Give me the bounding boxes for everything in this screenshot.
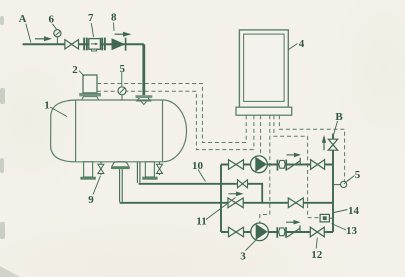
up flow arrow beside valve B: [322, 135, 326, 150]
svg-text:8: 8: [111, 12, 117, 24]
svg-text:3: 3: [240, 251, 246, 263]
wire: panel lead 6 to riser gauge: [279, 115, 344, 181]
flexible joint (top line): [277, 160, 288, 171]
wire: feed pipe drop to tank nozzle: [142, 44, 145, 95]
wire: panel lead 5 to pressure switch 13: [274, 115, 320, 217]
valve 11 on bypass: [228, 198, 243, 208]
valve B on riser (vertical): [328, 139, 337, 150]
wire: bypass line horizontal to riser: [120, 202, 333, 204]
gauge 5 on riser: [333, 180, 349, 188]
label 9: [88, 176, 100, 206]
label 6: [48, 14, 56, 30]
drain valve 9 (left): [98, 162, 104, 175]
label B: [332, 111, 343, 139]
svg-text:7: 7: [88, 12, 94, 24]
wire: suction manifold vertical: [220, 165, 222, 233]
flexible connector diagonal (bottom line): [287, 225, 300, 237]
flow arrow above top line: [287, 153, 302, 158]
flow arrow on feed pipe: [35, 36, 52, 41]
svg-text:11: 11: [196, 216, 206, 228]
wire: jog from pipe 10 down to bypass: [261, 183, 263, 203]
wire: pipe 10 drop from tank bottom (double line): [137, 162, 140, 183]
label 14: [334, 205, 360, 217]
label 3: [240, 240, 256, 263]
drain valve (right): [157, 162, 163, 175]
valve on feed pipe: [65, 40, 79, 49]
flow arrow above check valve 8: [115, 32, 132, 37]
label 8: [111, 12, 117, 31]
pressure switch 13 on riser: [320, 214, 332, 222]
label 5 (riser gauge): [348, 169, 361, 181]
wire: panel lead 3 to top pump: [260, 115, 262, 155]
tank leg right: [142, 162, 157, 180]
label 11: [196, 198, 235, 228]
svg-text:5: 5: [120, 63, 126, 75]
svg-text:2: 2: [72, 64, 78, 76]
valve at top pump suction: [229, 160, 244, 170]
pump 3 (bottom): [251, 223, 269, 241]
tank leg left: [80, 162, 95, 180]
control wiring (dashed): [97, 84, 345, 224]
fill nozzle on tank (under feed drop): [136, 95, 153, 104]
flexible connector diagonal (top line): [287, 158, 300, 170]
valve at bottom pump suction: [229, 227, 244, 237]
svg-text:9: 9: [88, 194, 94, 206]
label 4: [289, 38, 305, 50]
svg-text:4: 4: [299, 38, 305, 50]
tank 1 (horizontal pressure vessel): [51, 100, 187, 162]
svg-text:12: 12: [311, 249, 323, 261]
svg-text:A: A: [19, 14, 27, 25]
corner smudge: [0, 266, 20, 277]
valve on pipe 10: [238, 180, 248, 188]
svg-text:13: 13: [346, 225, 358, 237]
wire: suction drop pipe from center nozzle (double line): [120, 169, 123, 202]
wire: level device line lower to panel: [97, 91, 254, 149]
wire: panel lead 4 to bottom pump: [260, 115, 270, 223]
wire: discharge riser: [332, 134, 334, 232]
wire: level device line upper to panel: [97, 84, 246, 143]
svg-text:10: 10: [192, 160, 204, 172]
svg-text:1: 1: [44, 100, 50, 112]
wire: top pump line: [221, 164, 333, 166]
label 10: [192, 160, 206, 182]
flexible joint (bottom line): [276, 227, 287, 238]
control panel 4: [236, 30, 292, 115]
pump (top): [251, 156, 268, 173]
label 1: [44, 100, 67, 117]
valve 12 at bottom pump discharge: [310, 227, 324, 237]
meter 7 (water meter with flanges): [83, 38, 106, 51]
svg-text:14: 14: [348, 205, 360, 217]
nozzle with device 2 on tank top: [79, 75, 101, 100]
flow arrow above valve 11: [229, 192, 244, 197]
label 12: [311, 238, 323, 261]
label A (supply inlet): [19, 14, 31, 43]
center bottom nozzle of tank: [111, 162, 130, 169]
wire: pipe 10 horizontal: [139, 183, 263, 185]
wire: panel lead 2: [253, 115, 255, 149]
check valve 8: [112, 38, 126, 51]
wire: feed pipe A horizontal: [23, 43, 144, 45]
label 2: [72, 64, 84, 76]
wire: panel lead 1: [245, 115, 247, 142]
scan edge artifacts left: [0, 16, 5, 239]
label 5 (tank gauge): [120, 63, 126, 86]
wire: bottom pump line: [221, 231, 333, 233]
valve at top pump discharge: [311, 160, 325, 170]
gauge 6 (pressure gauge on feed): [54, 30, 61, 44]
label 7: [88, 12, 94, 37]
flow arrow above bottom line: [286, 220, 301, 225]
gauge 5 on tank top: [118, 87, 126, 101]
valve on bypass right: [288, 198, 303, 208]
svg-text:5: 5: [355, 169, 361, 181]
label 13: [332, 224, 358, 237]
scan blotches: [0, 210, 360, 277]
svg-text:6: 6: [48, 14, 54, 26]
svg-text:B: B: [335, 111, 343, 123]
